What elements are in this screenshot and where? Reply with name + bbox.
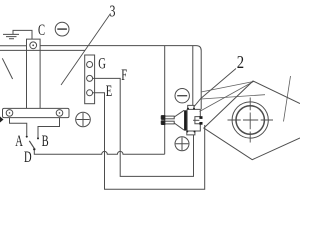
- switch blade D: [29, 141, 34, 149]
- wire enclosure top-left segment: [0, 45, 27, 47]
- svg-text:2: 2: [237, 54, 244, 72]
- svg-text:B: B: [42, 132, 49, 150]
- wire to contact B: [38, 118, 60, 138]
- ground: [3, 30, 32, 39]
- polarity plus P2: [175, 137, 189, 151]
- line D1: [201, 82, 254, 93]
- polarity minus M1: [55, 22, 69, 36]
- nozzle top stub: [188, 105, 194, 109]
- svg-text:F: F: [121, 66, 127, 84]
- contact A dot: [26, 136, 28, 138]
- nozzle body: [187, 109, 200, 131]
- contact B dot: [37, 137, 39, 139]
- pump bar: [3, 108, 70, 117]
- svg-text:C: C: [38, 21, 45, 39]
- leader line 3: [61, 14, 111, 86]
- nozzle cone: [174, 110, 184, 130]
- svg-text:D: D: [24, 148, 32, 166]
- tank hatch line: [2, 58, 12, 79]
- terminal strip: [85, 55, 95, 104]
- wire chimney left: [26, 50, 28, 108]
- wire chimney right: [39, 50, 41, 108]
- wire F terminal: [93, 78, 194, 176]
- hexagon fan housing: [204, 81, 300, 160]
- nozzle prong lower: [161, 121, 174, 124]
- nozzle atomizer: [161, 105, 202, 134]
- svg-text:A: A: [15, 132, 23, 150]
- polarity plus P1: [76, 112, 91, 127]
- svg-text:3: 3: [110, 3, 116, 21]
- partition left edge: [164, 46, 166, 155]
- left edge wedge: [0, 117, 4, 123]
- svg-text:G: G: [98, 55, 106, 73]
- node C terminal box: [27, 39, 41, 50]
- wire L1 D to partition with hops: [34, 150, 164, 154]
- leader line 2: [194, 69, 237, 108]
- polarity minus M2: [175, 89, 189, 103]
- nozzle electrode bar: [184, 110, 187, 130]
- line nozzle to hex vertex: [200, 82, 254, 112]
- crosshair centerlines: [228, 98, 274, 143]
- wire enclosure top and right edge: [40, 46, 201, 110]
- inner vertical to nozzle: [192, 46, 194, 106]
- nozzle bottom stub: [187, 131, 195, 135]
- line Dhoriz: [201, 95, 265, 99]
- wire tank top / C to strip: [0, 49, 85, 51]
- svg-text:E: E: [106, 82, 112, 100]
- fan bore outer circle: [232, 102, 268, 138]
- line D2: [284, 76, 291, 122]
- wire E terminal: [93, 93, 205, 190]
- fan bore inner circle: [236, 106, 264, 134]
- nozzle right contacts: [199, 116, 202, 119]
- node D dot: [33, 148, 35, 150]
- wire to contact A: [10, 118, 27, 136]
- nozzle center electrode: [193, 119, 199, 121]
- nozzle prong upper: [161, 116, 174, 119]
